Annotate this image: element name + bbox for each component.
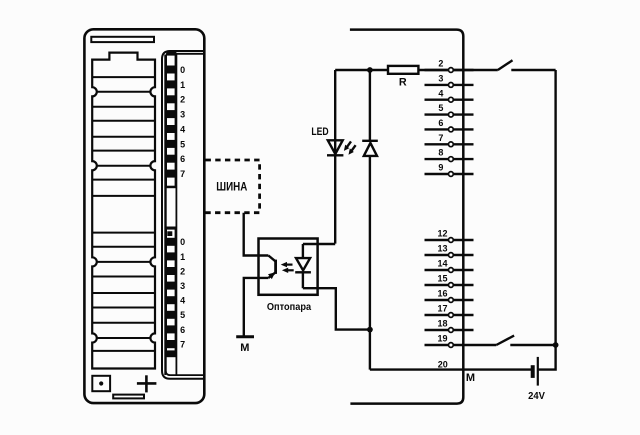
svg-text:2: 2: [438, 59, 443, 69]
LED light arrows: [344, 141, 356, 154]
wire: phototransistor emitter to ground: [244, 278, 269, 337]
terminal 17: [425, 314, 474, 316]
terminal 19: [425, 344, 497, 346]
module ventilation fin stack outline: [92, 53, 155, 369]
svg-text:0: 0: [180, 65, 185, 75]
svg-text:R: R: [399, 77, 407, 89]
terminal 14: [425, 269, 474, 271]
LED strip top zone labels 0-7: [180, 65, 185, 179]
opto LED diode (vertical, conducting down): [295, 244, 311, 288]
svg-text:4: 4: [180, 124, 185, 134]
svg-text:Оптопара: Оптопара: [267, 302, 312, 313]
wire: opto cathode return jog to node: [303, 288, 370, 329]
svg-text:18: 18: [437, 319, 447, 329]
LED panel outer frame: [162, 51, 204, 379]
wire: resistor to terminal 2: [418, 69, 448, 71]
svg-text:17: 17: [437, 304, 447, 314]
svg-text:13: 13: [437, 244, 447, 254]
svg-text:5: 5: [438, 103, 443, 113]
ground bar M: [236, 335, 254, 338]
terminal block outline: [350, 30, 463, 404]
svg-text:20: 20: [438, 360, 448, 370]
terminal 8: [425, 158, 474, 160]
svg-text:9: 9: [438, 163, 443, 173]
svg-text:12: 12: [437, 229, 447, 239]
terminal 16: [425, 299, 474, 301]
svg-text:8: 8: [438, 148, 443, 158]
resistor R: [388, 66, 418, 74]
junction node: cathode return: [367, 327, 373, 333]
terminal 6: [425, 128, 474, 130]
protection diode branch wire: [369, 70, 371, 370]
terminal 13: [425, 254, 474, 256]
svg-text:0: 0: [180, 237, 185, 247]
terminal 4: [425, 98, 474, 100]
LED panel inner frame: [166, 54, 205, 375]
terminal 15: [425, 284, 474, 286]
optocoupler box: [259, 239, 318, 295]
protection diode (conducting up): [362, 141, 378, 156]
svg-text:16: 16: [437, 289, 447, 299]
svg-text:6: 6: [180, 325, 185, 335]
input network wire (terminal 2 row): [335, 69, 388, 71]
svg-text:LED: LED: [311, 126, 328, 138]
phototransistor emitter arrowhead: [268, 272, 275, 279]
switch S2 (terminal 19): [496, 336, 555, 345]
svg-text:ШИНА: ШИНА: [216, 181, 247, 193]
terminal 7: [425, 143, 474, 145]
wire: opto anode to LED branch: [303, 243, 335, 245]
LED branch wire: [334, 70, 336, 244]
switch S1 (terminal 2): [453, 60, 555, 70]
LED strip bottom zone labels 0-7: [180, 237, 185, 349]
svg-text:2: 2: [180, 266, 185, 276]
terminal 18: [425, 329, 474, 331]
svg-text:4: 4: [438, 88, 443, 98]
right supply rail: [538, 70, 556, 370]
svg-text:1: 1: [180, 252, 185, 262]
strip marker square: [167, 231, 172, 236]
svg-text:24V: 24V: [528, 390, 545, 402]
LED strip top zone (channels 0-7): [165, 55, 177, 188]
phototransistor: [268, 256, 275, 278]
svg-text:4: 4: [180, 296, 185, 306]
junction node: resistor/diode branch: [367, 67, 373, 73]
svg-text:M: M: [466, 372, 475, 384]
socket dot: [99, 381, 103, 385]
terminal 12: [425, 239, 474, 241]
fin divider lines: [92, 77, 155, 351]
terminal 5: [425, 113, 474, 115]
svg-text:6: 6: [180, 154, 185, 164]
svg-text:5: 5: [180, 310, 185, 320]
PLC module outer housing: [84, 29, 204, 403]
LED strip bottom zone (channels 0-7): [165, 227, 177, 358]
svg-text:3: 3: [438, 74, 443, 84]
wire: bus box to phototransistor collector: [244, 213, 269, 256]
LED strip corner wedge: [166, 51, 177, 55]
svg-text:14: 14: [437, 259, 447, 269]
svg-text:7: 7: [180, 339, 185, 349]
LED strip column: [165, 55, 176, 376]
svg-text:2: 2: [180, 95, 185, 105]
terminal 20 / M wire: [370, 368, 533, 370]
svg-text:19: 19: [437, 334, 447, 344]
terminal 2: [425, 69, 474, 71]
module bottom slot bar: [113, 395, 144, 399]
module top label bar: [91, 37, 154, 42]
bus box ШИНА (dashed): [206, 160, 260, 213]
svg-text:15: 15: [437, 274, 447, 284]
LED indicator symbol: [327, 140, 343, 155]
svg-text:6: 6: [438, 118, 443, 128]
svg-text:1: 1: [180, 80, 185, 90]
svg-text:7: 7: [180, 169, 185, 179]
opto light arrows: [281, 262, 294, 273]
terminal 9: [425, 173, 474, 175]
module plus cross: [137, 375, 157, 392]
svg-text:5: 5: [180, 139, 185, 149]
module bottom socket square: [92, 376, 110, 391]
terminal 3: [425, 84, 474, 86]
svg-text:3: 3: [180, 281, 185, 291]
battery 24V: [533, 357, 538, 386]
svg-text:7: 7: [438, 133, 443, 143]
svg-text:3: 3: [180, 110, 185, 120]
svg-text:M: M: [240, 342, 249, 354]
junction node: rail / switch 19: [553, 342, 559, 348]
